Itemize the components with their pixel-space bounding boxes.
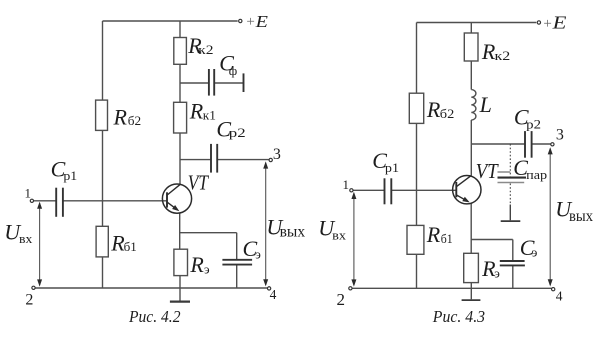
svg-text:1: 1	[343, 177, 350, 192]
svg-text:4: 4	[556, 288, 563, 303]
svg-text:R: R	[189, 99, 204, 124]
svg-text:R: R	[113, 105, 128, 130]
svg-text:вх: вх	[332, 228, 346, 243]
svg-text:вх: вх	[19, 231, 33, 246]
svg-text:р2: р2	[229, 125, 246, 140]
svg-text:L: L	[479, 92, 492, 117]
svg-text:э: э	[255, 247, 261, 262]
svg-text:к2: к2	[495, 48, 511, 63]
svg-text:2: 2	[25, 291, 33, 308]
svg-text:+: +	[543, 16, 551, 32]
svg-text:э: э	[532, 245, 538, 260]
svg-text:ф: ф	[229, 63, 237, 78]
svg-text:к1: к1	[203, 108, 216, 123]
svg-text:вых: вых	[280, 224, 306, 241]
svg-text:4: 4	[270, 287, 277, 302]
svg-text:б1: б1	[441, 231, 453, 246]
svg-text:R: R	[189, 252, 204, 277]
svg-text:Рис. 4.3: Рис. 4.3	[432, 307, 485, 326]
svg-text:р2: р2	[526, 117, 541, 132]
svg-text:Рис. 4.2: Рис. 4.2	[128, 307, 181, 326]
svg-text:пар: пар	[526, 167, 547, 182]
svg-text:вых: вых	[569, 208, 593, 225]
svg-text:E: E	[551, 13, 566, 33]
svg-text:1: 1	[25, 185, 32, 200]
svg-text:б2: б2	[440, 106, 455, 121]
svg-text:VT: VT	[476, 159, 499, 183]
svg-text:+: +	[246, 14, 254, 30]
svg-text:3: 3	[273, 146, 281, 163]
svg-text:R: R	[426, 222, 441, 247]
svg-text:2: 2	[337, 290, 346, 309]
svg-text:R: R	[426, 97, 441, 122]
svg-text:э: э	[204, 261, 210, 276]
svg-text:э: э	[494, 266, 500, 281]
svg-text:3: 3	[556, 127, 564, 144]
svg-text:б1: б1	[124, 239, 137, 254]
svg-text:VT: VT	[188, 171, 209, 195]
svg-text:к2: к2	[198, 42, 213, 57]
svg-text:б2: б2	[128, 113, 141, 128]
svg-text:E: E	[254, 12, 268, 31]
svg-text:р1: р1	[385, 160, 399, 175]
svg-text:р1: р1	[63, 168, 77, 183]
